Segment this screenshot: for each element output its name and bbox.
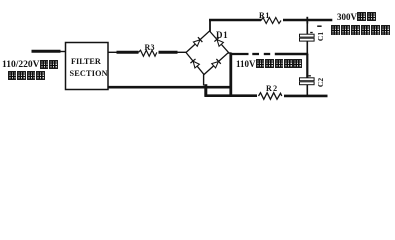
wire: C1 top lead [306, 22, 308, 34]
label: resistor R1 [259, 11, 270, 20]
wire: vertical from right vertex down to bottom rail [229, 53, 232, 97]
filter block: FILTER SECTION box [66, 43, 109, 90]
label: FILTER [71, 57, 101, 66]
wire: bottom DC rail left of R2 (thick) [205, 94, 258, 97]
wire: bottom vertex step-down stub [204, 84, 207, 96]
capacitor C2 plates [300, 78, 315, 81]
diode D1c lower-left [190, 59, 199, 68]
label: resistor R3 [145, 43, 155, 52]
wire: AC input lead (thick) [32, 50, 61, 53]
wire: thin segment to bridge left vertex [177, 51, 187, 53]
wire: top DC rail right of R1 (thick) [283, 19, 332, 21]
resistor R2 [259, 93, 282, 100]
diode D1d lower-right [211, 59, 220, 68]
wire: filter bottom output to 110V vertical (thick) [108, 86, 232, 89]
wire: 110V link dash 1 [252, 53, 259, 55]
wire: riser from bridge top vertex to +rail [209, 20, 211, 32]
label: bridge D1 [216, 30, 228, 40]
wire: thick segment before R3 [117, 51, 139, 54]
wire: thick segment after R3 [159, 51, 178, 54]
capacitor C1 polarity mark [310, 32, 313, 34]
label: connect to converter circuit [331, 25, 390, 36]
wire: bridge bottom vertex tail [203, 75, 205, 86]
wire: midpoint to C2 lead [306, 54, 308, 78]
resistor R3 [139, 50, 157, 56]
wire: C2 bottom lead [306, 85, 308, 97]
wire: 110V link dash 2 [264, 53, 270, 55]
wire: top DC rail left of R1 (thick) [209, 19, 261, 21]
capacitor C1 plates [300, 34, 315, 37]
wire: 110V link solid part to capacitor midpoint [275, 53, 308, 55]
diode bridge D1 diamond [186, 31, 229, 75]
wire: bottom DC rail right of R2 (thick) [284, 95, 328, 98]
label: resistor R2 [266, 84, 279, 93]
diode D1b upper-right [214, 37, 223, 46]
label: 110/220V AC input line 1 [2, 60, 58, 70]
label: SECTION [70, 69, 108, 78]
label: 300V DC output [337, 12, 376, 22]
wire: C1 bottom lead to midpoint [306, 41, 308, 55]
capacitor C2 polarity mark [308, 75, 311, 77]
node: C1 junction tick on top rail [306, 17, 308, 24]
wire: filter top output thin [108, 51, 118, 53]
label: capacitor C2 (rotated) [316, 78, 325, 87]
resistor R1 [261, 18, 281, 24]
diode D1a upper-left [193, 37, 202, 46]
label: connect when 110V input [236, 59, 302, 69]
wire: 110V link solid part at bridge [231, 53, 249, 55]
stray scan mark left of connect-text [317, 25, 321, 27]
label: capacitor C1 (rotated) [316, 32, 325, 41]
wire: AC input lead thin segment into filter box [59, 51, 66, 53]
label: AC input line 2 (shu ru dian ya) [7, 71, 45, 81]
wire: right vertex nub [228, 52, 232, 54]
